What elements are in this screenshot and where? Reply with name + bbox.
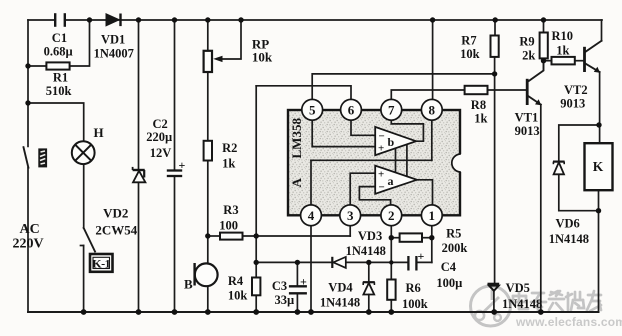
svg-text:VD2: VD2: [103, 206, 128, 221]
svg-text:1N4148: 1N4148: [502, 297, 542, 311]
svg-text:2CW54: 2CW54: [95, 223, 137, 238]
svg-text:+: +: [378, 169, 384, 181]
svg-text:10k: 10k: [252, 50, 273, 65]
svg-text:2k: 2k: [522, 49, 535, 63]
svg-text:VT1: VT1: [515, 111, 539, 125]
svg-text:1k: 1k: [556, 44, 569, 58]
svg-text:10k: 10k: [228, 289, 248, 303]
svg-text:3: 3: [347, 208, 354, 223]
svg-text:www.elecfans.com: www.elecfans.com: [515, 315, 622, 329]
svg-text:R7: R7: [461, 34, 476, 48]
svg-text:5: 5: [309, 102, 316, 117]
svg-text:9013: 9013: [515, 124, 540, 138]
svg-text:10k: 10k: [460, 47, 480, 61]
svg-text:R6: R6: [406, 281, 421, 295]
svg-text:220µ: 220µ: [146, 130, 172, 144]
svg-text:VD4: VD4: [328, 281, 353, 295]
svg-text:1N4148: 1N4148: [549, 232, 589, 246]
svg-text:1N4007: 1N4007: [94, 47, 134, 61]
svg-text:4: 4: [308, 208, 315, 223]
svg-text:R10: R10: [552, 29, 574, 43]
svg-text:LM358: LM358: [289, 118, 304, 159]
svg-text:0.68µ: 0.68µ: [44, 45, 73, 59]
svg-text:+: +: [418, 249, 425, 263]
svg-text:R9: R9: [519, 35, 534, 49]
svg-text:100µ: 100µ: [436, 276, 462, 290]
svg-text:R2: R2: [222, 141, 237, 155]
svg-text:33µ: 33µ: [275, 293, 295, 307]
svg-text:100k: 100k: [402, 297, 428, 311]
svg-text:12V: 12V: [150, 146, 172, 160]
svg-text:C4: C4: [441, 260, 457, 274]
svg-text:510k: 510k: [46, 84, 72, 98]
svg-text:1: 1: [429, 208, 436, 223]
svg-text:1N4148: 1N4148: [346, 244, 386, 258]
svg-text:C3: C3: [272, 279, 287, 293]
svg-text:B: B: [184, 277, 193, 292]
svg-text:VD1: VD1: [101, 33, 125, 47]
svg-text:b: b: [388, 135, 395, 149]
svg-text:AC: AC: [20, 222, 40, 237]
svg-text:R3: R3: [223, 203, 238, 217]
svg-text:2: 2: [388, 208, 395, 223]
svg-text:6: 6: [348, 102, 355, 117]
svg-text:C1: C1: [52, 31, 67, 45]
svg-text:1k: 1k: [474, 112, 487, 126]
svg-text:A: A: [289, 178, 304, 188]
svg-text:−: −: [379, 131, 385, 143]
svg-text:100: 100: [219, 219, 238, 233]
svg-text:VT2: VT2: [564, 83, 588, 97]
svg-text:R8: R8: [471, 98, 486, 112]
svg-text:7: 7: [388, 102, 395, 117]
svg-text:R4: R4: [228, 274, 244, 288]
svg-text:a: a: [388, 174, 394, 188]
svg-text:R1: R1: [53, 71, 68, 85]
svg-text:+: +: [300, 275, 307, 289]
svg-text:1N4148: 1N4148: [320, 296, 360, 310]
svg-text:H: H: [94, 125, 104, 140]
svg-text:8: 8: [429, 102, 436, 117]
svg-text:K-1: K-1: [92, 257, 110, 271]
svg-text:+: +: [378, 143, 384, 155]
svg-text:K: K: [593, 159, 604, 174]
svg-text:+: +: [179, 158, 186, 172]
svg-text:VD3: VD3: [358, 229, 382, 243]
svg-text:R5: R5: [446, 227, 461, 241]
svg-text:VD6: VD6: [556, 217, 580, 231]
svg-text:−: −: [379, 182, 385, 194]
svg-text:1k: 1k: [222, 157, 235, 171]
svg-text:9013: 9013: [560, 97, 585, 111]
svg-text:VD5: VD5: [506, 281, 530, 295]
svg-text:200k: 200k: [442, 241, 468, 255]
svg-text:C2: C2: [153, 117, 168, 131]
svg-text:220V: 220V: [13, 237, 44, 252]
